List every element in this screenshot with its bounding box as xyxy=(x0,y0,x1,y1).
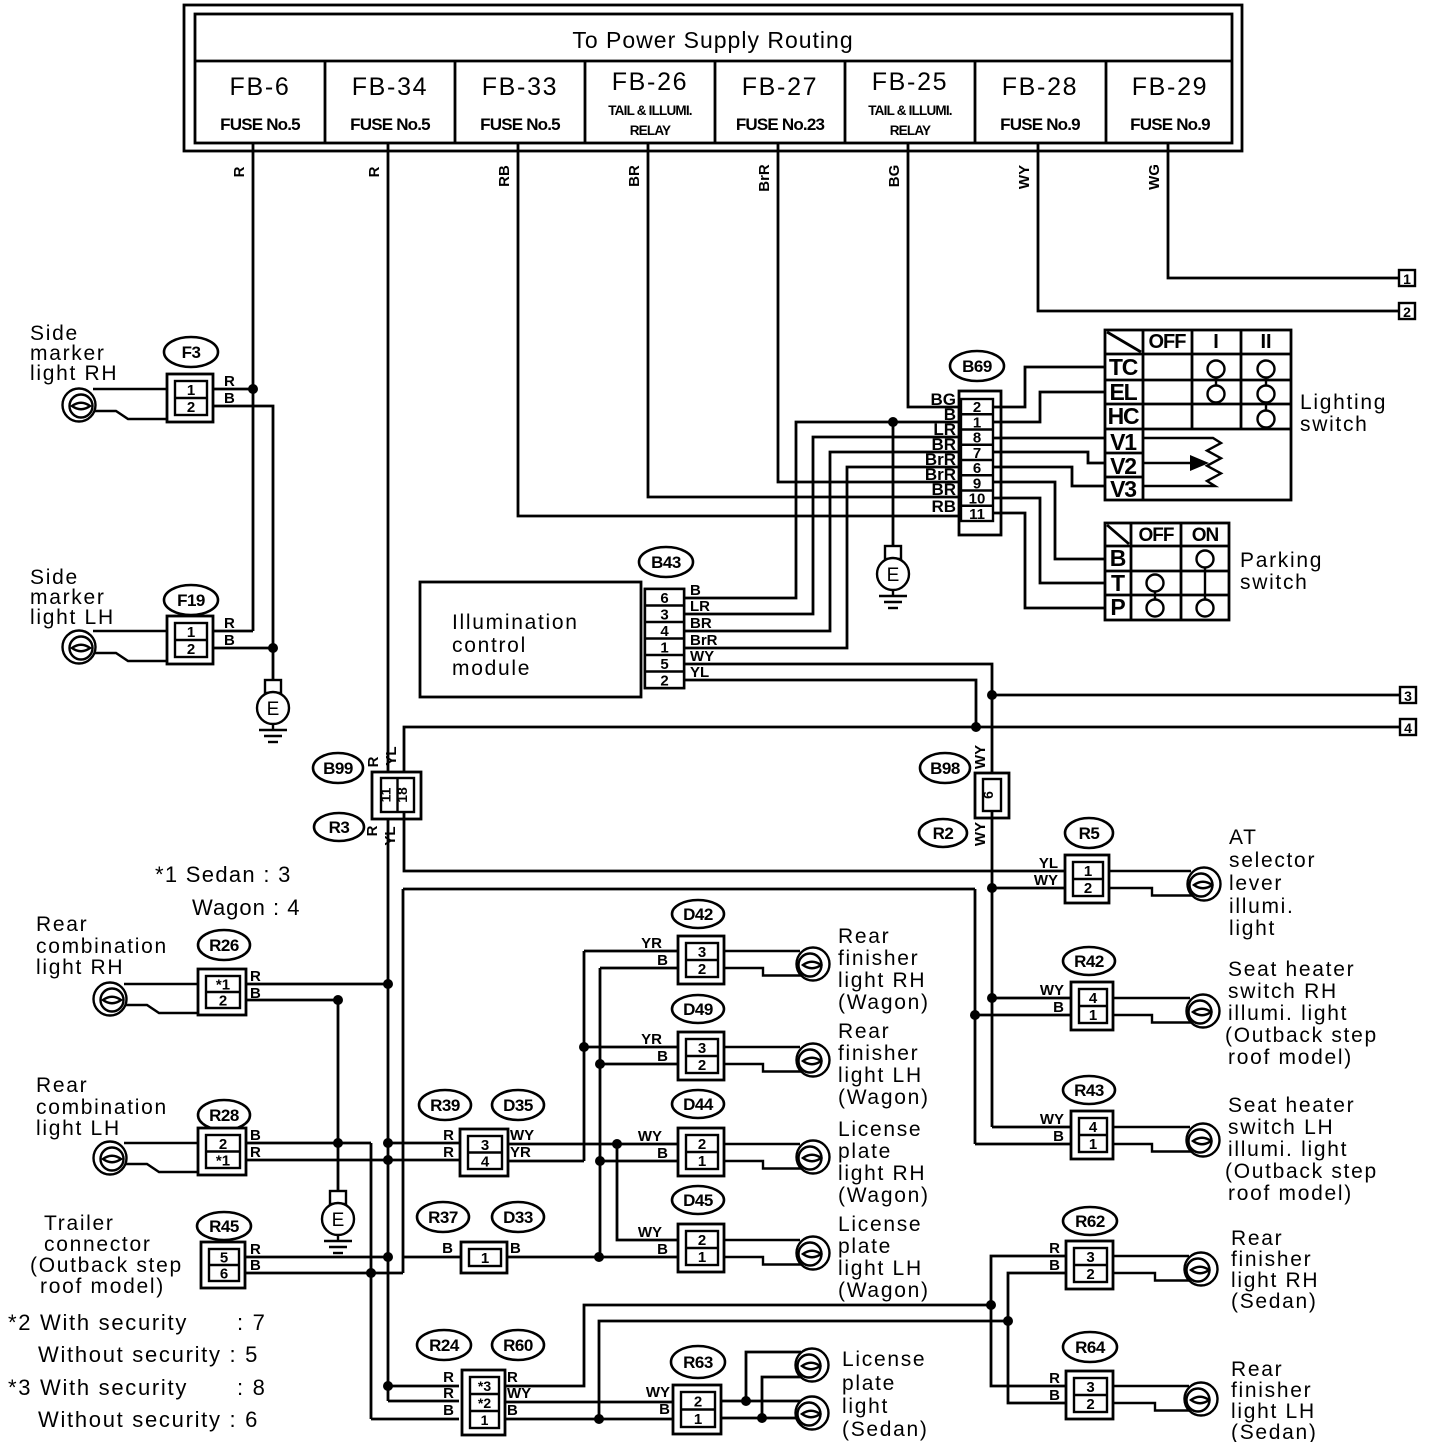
svg-text:R: R xyxy=(224,373,235,390)
wire B69 pin10 to parking T xyxy=(993,498,1105,583)
junction dot xyxy=(579,1042,589,1052)
wire B69 pin8 to lighting V1 xyxy=(993,437,1105,440)
R3 wire labels below xyxy=(364,825,399,845)
connector B98/R2 xyxy=(975,773,1009,818)
svg-text:FUSE No.9: FUSE No.9 xyxy=(1130,115,1210,134)
illumination control module box xyxy=(420,582,641,697)
svg-text:WY: WY xyxy=(972,822,989,846)
svg-text:B: B xyxy=(1049,1257,1060,1274)
svg-text:light RH: light RH xyxy=(838,969,926,992)
wire R64 bulb leads xyxy=(1112,1386,1190,1411)
connector R63 oval xyxy=(671,1346,725,1378)
svg-text:Illumination: Illumination xyxy=(452,611,579,634)
terminal 3 xyxy=(1400,687,1416,704)
wire R63 pin2 to bulbs xyxy=(720,1352,801,1401)
svg-text:T: T xyxy=(1111,570,1125,596)
connector B99 oval xyxy=(313,753,363,783)
connector B99/R3 xyxy=(372,772,421,819)
wire R vertical to R39 pin3 xyxy=(388,1142,460,1145)
R37 wire label left xyxy=(442,1240,453,1257)
svg-text:B: B xyxy=(507,1402,518,1419)
connector R39 oval xyxy=(419,1090,471,1120)
R43 wire labels xyxy=(1040,1111,1064,1145)
junction dot xyxy=(383,1138,393,1148)
svg-text:(Sedan): (Sedan) xyxy=(1231,1421,1318,1442)
wire BG from FB-25 to B69 pin 2 xyxy=(908,143,961,407)
svg-text:finisher: finisher xyxy=(838,1042,919,1065)
note sedan wagon xyxy=(155,862,300,920)
wire D42 bulb leads xyxy=(724,951,801,976)
B99 wire labels above xyxy=(365,746,400,767)
fuse box FB-34 FUSE No.5 xyxy=(350,61,455,143)
wire D49 B lead xyxy=(600,1063,679,1066)
wire ground branch from B net xyxy=(892,422,895,546)
svg-text:FUSE No.5: FUSE No.5 xyxy=(220,115,300,134)
svg-text:P: P xyxy=(1110,594,1125,620)
svg-text:2: 2 xyxy=(1403,304,1411,320)
wire WY to R5 pin2 xyxy=(992,887,1067,890)
wire D42 YR lead xyxy=(584,951,679,1161)
connector R3 oval xyxy=(314,813,364,841)
svg-text:FB-6: FB-6 xyxy=(230,73,291,101)
svg-text:4: 4 xyxy=(660,623,669,640)
wire B43 pin6 B to B69 pin1 xyxy=(684,422,961,598)
connector R26 xyxy=(198,969,246,1015)
wire label R xyxy=(366,166,383,177)
svg-text:2: 2 xyxy=(698,1057,706,1074)
bulb rear finisher RH wagon xyxy=(797,948,830,981)
wire F19 pin1 R xyxy=(209,630,253,633)
bulb side marker RH xyxy=(63,389,96,422)
svg-text:R43: R43 xyxy=(1074,1081,1104,1100)
svg-text:BrR: BrR xyxy=(690,632,718,649)
svg-text:Rear: Rear xyxy=(1231,1227,1283,1250)
wire YL from R3 to R5 pin1 xyxy=(404,812,1067,871)
terminal 4 xyxy=(1400,719,1416,736)
svg-text:Trailer: Trailer xyxy=(44,1212,115,1235)
svg-text:FUSE No.5: FUSE No.5 xyxy=(480,115,560,134)
svg-text:Seat heater: Seat heater xyxy=(1228,958,1355,981)
svg-text:: 8: : 8 xyxy=(237,1375,267,1400)
svg-text:plate: plate xyxy=(842,1372,896,1395)
svg-text:Rear: Rear xyxy=(838,925,890,948)
svg-text:R: R xyxy=(366,166,383,177)
connector B98 oval xyxy=(920,753,970,783)
label Seat heater switch LH illumi. light xyxy=(1225,1094,1378,1205)
svg-text:3: 3 xyxy=(1086,1249,1094,1266)
svg-text:6: 6 xyxy=(980,791,996,799)
svg-text:finisher: finisher xyxy=(1231,1248,1312,1271)
wire F19 bulb leads xyxy=(93,631,167,661)
wire R45 B lead xyxy=(246,1257,403,1273)
svg-text:E: E xyxy=(267,699,280,720)
bulb rear finisher LH sedan xyxy=(1185,1383,1218,1416)
svg-text:TAIL & ILLUMI.: TAIL & ILLUMI. xyxy=(608,103,692,118)
connector F3 xyxy=(167,374,213,422)
bulb license plate LH wagon xyxy=(797,1237,830,1270)
svg-text:HC: HC xyxy=(1108,403,1139,429)
svg-text:(Outback step: (Outback step xyxy=(30,1254,183,1277)
junction dot xyxy=(612,1139,622,1149)
svg-text:R26: R26 xyxy=(209,936,239,955)
svg-text:YL: YL xyxy=(382,826,399,845)
svg-text:light: light xyxy=(1229,917,1276,940)
wire B down to ground xyxy=(337,1000,340,1191)
junction dot xyxy=(594,1414,604,1424)
svg-text:B69: B69 xyxy=(962,357,992,376)
svg-text:2: 2 xyxy=(1084,880,1092,897)
connector R24 oval xyxy=(417,1330,471,1360)
svg-text:18: 18 xyxy=(394,787,410,803)
svg-text:R42: R42 xyxy=(1074,952,1104,971)
svg-text:V1: V1 xyxy=(1110,429,1137,455)
svg-text:roof model): roof model) xyxy=(1228,1046,1353,1069)
svg-text:light LH: light LH xyxy=(838,1257,923,1280)
svg-text:1: 1 xyxy=(1089,1136,1097,1153)
svg-text:R60: R60 xyxy=(503,1336,533,1355)
wire R26 bulb leads xyxy=(124,984,198,1013)
title To Power Supply Routing xyxy=(572,27,853,53)
svg-text:B: B xyxy=(224,632,235,649)
ground E below F19 xyxy=(257,680,289,742)
junction dot xyxy=(595,1059,605,1069)
svg-text:1: 1 xyxy=(1084,863,1092,880)
svg-text:1: 1 xyxy=(481,1412,489,1428)
connector R43 oval xyxy=(1063,1076,1115,1104)
note without security 6 xyxy=(38,1407,259,1432)
svg-text:2: 2 xyxy=(698,1232,706,1249)
connector F19 xyxy=(167,616,213,664)
label AT selector lever illumi. light xyxy=(1229,826,1316,940)
wire R60 pin1 B right xyxy=(505,1418,681,1421)
svg-text:(Wagon): (Wagon) xyxy=(838,991,930,1014)
svg-text:YR: YR xyxy=(510,1144,531,1161)
svg-text:4: 4 xyxy=(1089,1119,1098,1136)
R60 wire labels right xyxy=(507,1369,531,1419)
connector R28 xyxy=(198,1128,246,1175)
svg-text:B: B xyxy=(657,1048,668,1065)
connector R39/D35 xyxy=(460,1129,508,1176)
wire R62 bulb leads xyxy=(1112,1256,1190,1281)
wire B69 pin11 to parking P xyxy=(993,513,1105,608)
svg-text:*1 Sedan : 3: *1 Sedan : 3 xyxy=(155,862,292,887)
wire D44 WY lead xyxy=(506,1143,679,1146)
svg-text:finisher: finisher xyxy=(838,947,919,970)
terminal 1 xyxy=(1399,270,1415,287)
svg-text:light RH: light RH xyxy=(36,956,124,979)
B98 wire label above xyxy=(972,745,989,769)
svg-text:combination: combination xyxy=(36,1096,168,1119)
ground E mid xyxy=(322,1191,354,1253)
svg-text:WY: WY xyxy=(972,745,989,769)
svg-text:R: R xyxy=(1049,1240,1060,1257)
D42 wire labels xyxy=(641,935,668,969)
label Rear finisher light RH Sedan xyxy=(1231,1227,1319,1313)
svg-text:plate: plate xyxy=(838,1235,892,1258)
lighting switch resistor and wires xyxy=(1143,438,1221,486)
svg-text:3: 3 xyxy=(1404,688,1412,704)
svg-text:B: B xyxy=(657,1241,668,1258)
wire D49 YR lead xyxy=(584,1046,679,1049)
note without security 5 xyxy=(38,1342,259,1367)
svg-text:(Wagon): (Wagon) xyxy=(838,1279,930,1302)
svg-text:R: R xyxy=(443,1385,454,1402)
svg-text:switch RH: switch RH xyxy=(1228,980,1338,1003)
svg-text:B: B xyxy=(1049,1387,1060,1404)
svg-text:3: 3 xyxy=(660,606,668,623)
svg-text:R: R xyxy=(250,1144,261,1161)
junction dot xyxy=(986,1300,996,1310)
wire R43 bulb leads xyxy=(1114,1127,1191,1152)
R45 wire labels xyxy=(250,1241,261,1274)
wire B riser to sedan lights xyxy=(599,1321,1008,1419)
svg-text:WY: WY xyxy=(507,1385,531,1402)
svg-text:B: B xyxy=(250,1257,261,1274)
lighting switch table xyxy=(1105,330,1291,502)
bulb rear finisher LH wagon xyxy=(797,1044,830,1077)
svg-text:WY: WY xyxy=(1040,1111,1064,1128)
svg-text:R3: R3 xyxy=(329,818,350,837)
wire B down to R24 xyxy=(371,1273,459,1419)
wire R60 pin2 WY to R63 xyxy=(505,1401,681,1404)
svg-text:selector: selector xyxy=(1229,849,1316,872)
svg-text:EL: EL xyxy=(1110,379,1138,405)
svg-text:2: 2 xyxy=(694,1393,702,1410)
svg-text:2: 2 xyxy=(219,993,227,1010)
svg-text:2: 2 xyxy=(187,399,195,416)
svg-text:License: License xyxy=(842,1348,926,1371)
svg-text:Parking: Parking xyxy=(1240,549,1323,572)
R63 wire labels xyxy=(646,1384,670,1418)
svg-text:Without security : 5: Without security : 5 xyxy=(38,1342,259,1367)
junction dot xyxy=(366,1268,376,1278)
svg-text:3: 3 xyxy=(1086,1379,1094,1396)
svg-text:R: R xyxy=(250,1241,261,1258)
svg-text:WY: WY xyxy=(510,1127,534,1144)
wire B43 pin3 LR to B69 pin8 xyxy=(684,437,961,614)
svg-text:WY: WY xyxy=(1016,165,1033,189)
svg-text:B98: B98 xyxy=(930,759,960,778)
svg-text:1: 1 xyxy=(660,639,668,656)
svg-text:light RH: light RH xyxy=(30,362,118,385)
svg-text:module: module xyxy=(452,657,531,680)
connector D49 xyxy=(678,1032,724,1080)
svg-text:YL: YL xyxy=(383,746,400,765)
wire YL net to terminal 4 xyxy=(404,727,1399,778)
svg-text:TC: TC xyxy=(1109,354,1138,380)
wire R45 R lead xyxy=(246,1256,388,1259)
wire R43 B lead xyxy=(975,1143,1079,1146)
junction dot xyxy=(383,1381,393,1391)
svg-text:RB: RB xyxy=(496,165,513,187)
connector D45 oval xyxy=(672,1186,724,1214)
svg-text:E: E xyxy=(332,1210,345,1231)
wire B69 pin2 to lighting TC xyxy=(993,367,1105,407)
wire R from FB-6 down to F3/F19 xyxy=(252,143,255,631)
connector R37 oval xyxy=(417,1202,469,1232)
svg-text:D44: D44 xyxy=(683,1095,714,1114)
fuse box FB-28 FUSE No.9 xyxy=(1000,61,1106,143)
svg-text:YL: YL xyxy=(690,664,709,681)
svg-text:E: E xyxy=(887,565,900,586)
wire label RB xyxy=(496,165,513,187)
fuse box FB-29 FUSE No.9 xyxy=(1130,73,1210,134)
svg-text:D49: D49 xyxy=(683,1000,713,1019)
svg-text:2: 2 xyxy=(1086,1266,1094,1283)
svg-text:(Sedan): (Sedan) xyxy=(1231,1290,1318,1313)
svg-text:illumi.: illumi. xyxy=(1229,895,1295,918)
wire label R xyxy=(231,166,248,177)
connector F3 oval xyxy=(164,337,218,367)
svg-text:1: 1 xyxy=(1089,1007,1097,1024)
wire B69 pin9 to parking B xyxy=(993,482,1105,559)
svg-text:B99: B99 xyxy=(323,759,353,778)
wire D42 B lead xyxy=(600,968,679,1257)
connector B69 oval xyxy=(950,351,1004,381)
label Side marker light RH xyxy=(30,322,118,385)
svg-text:1: 1 xyxy=(187,382,195,399)
svg-text:FUSE No.5: FUSE No.5 xyxy=(350,115,430,134)
wire F3 bulb leads xyxy=(93,389,167,419)
B43 pin wire labels xyxy=(690,582,718,681)
svg-text:TAIL & ILLUMI.: TAIL & ILLUMI. xyxy=(868,103,952,118)
connector R62 xyxy=(1066,1241,1113,1289)
fuse box FB-27 FUSE No.23 xyxy=(736,61,845,143)
wire label BrR xyxy=(756,164,773,192)
junction dot xyxy=(987,883,997,893)
svg-text:B: B xyxy=(1053,1128,1064,1145)
svg-text:BG: BG xyxy=(886,165,903,188)
svg-text:R62: R62 xyxy=(1075,1212,1105,1231)
junction dot xyxy=(248,384,258,394)
svg-text:B: B xyxy=(690,582,701,599)
wire R26 R lead xyxy=(246,983,388,986)
svg-text:3: 3 xyxy=(698,1040,706,1057)
connector R64 xyxy=(1066,1371,1113,1419)
wire label WG xyxy=(1146,164,1163,190)
connector D45 xyxy=(678,1224,724,1272)
svg-text:Rear: Rear xyxy=(36,913,88,936)
svg-text:plate: plate xyxy=(838,1140,892,1163)
connector R24/R60 xyxy=(462,1370,505,1435)
wire D45 bulb leads xyxy=(724,1240,801,1265)
junction dot xyxy=(383,979,393,989)
svg-text:11: 11 xyxy=(377,787,393,802)
svg-text:1: 1 xyxy=(1403,271,1411,287)
svg-text:R: R xyxy=(1049,1370,1060,1387)
svg-text:R45: R45 xyxy=(209,1217,239,1236)
svg-text:R37: R37 xyxy=(428,1208,458,1227)
svg-text:FB-33: FB-33 xyxy=(482,73,559,101)
svg-text:License: License xyxy=(838,1118,922,1141)
svg-text:R: R xyxy=(443,1127,454,1144)
svg-text:FB-29: FB-29 xyxy=(1132,73,1209,101)
wire R42 B lead xyxy=(975,1014,1079,1017)
note *3 with security xyxy=(8,1375,267,1400)
wire R64 B lead xyxy=(1008,1321,1066,1403)
svg-text:FB-27: FB-27 xyxy=(742,73,819,101)
lighting switch contacts xyxy=(1208,361,1275,428)
connector D33 oval xyxy=(492,1202,544,1232)
wire R28 B lead xyxy=(246,1143,371,1273)
svg-text:V3: V3 xyxy=(1110,476,1136,502)
svg-text:WY: WY xyxy=(638,1128,662,1145)
svg-text:1: 1 xyxy=(694,1411,702,1428)
svg-text:R: R xyxy=(250,968,261,985)
svg-text:ON: ON xyxy=(1192,525,1219,546)
wire D45 B lead xyxy=(403,1256,679,1259)
label Trailer connector xyxy=(30,1212,183,1298)
svg-text:*2: *2 xyxy=(478,1395,491,1411)
wire R60 pin3 R right xyxy=(505,1305,991,1386)
wire B43 pin1 BrR to B69 pin6 xyxy=(684,467,961,648)
bulb rear finisher RH sedan xyxy=(1185,1253,1218,1286)
connector R37/D33 xyxy=(461,1242,507,1273)
wire WG from FB-29 to terminal 1 xyxy=(1168,143,1399,278)
terminal 2 xyxy=(1399,303,1415,320)
label Lighting switch xyxy=(1300,391,1387,436)
wire B43 pin2 YL right xyxy=(684,680,976,727)
junction dot xyxy=(383,1252,393,1262)
svg-text:WY: WY xyxy=(1034,872,1058,889)
wire R5 bulb leads xyxy=(1110,871,1192,896)
svg-text:FB-26: FB-26 xyxy=(612,68,689,96)
R64 wire labels xyxy=(1049,1370,1060,1404)
svg-text:*1: *1 xyxy=(216,1152,230,1169)
connector B43 oval xyxy=(639,547,693,577)
svg-text:1: 1 xyxy=(481,1250,489,1267)
svg-text:light LH: light LH xyxy=(838,1064,923,1087)
svg-text:*3 With security: *3 With security xyxy=(8,1375,188,1400)
wire RB from FB-33 to B69 pin 11 xyxy=(518,143,961,516)
wire R from FB-34 down through B99 pin 11 to R24 xyxy=(388,143,459,1401)
svg-text:2: 2 xyxy=(660,672,668,689)
svg-text:(Sedan): (Sedan) xyxy=(842,1418,929,1441)
svg-text:R64: R64 xyxy=(1075,1338,1106,1357)
junction dot xyxy=(888,417,898,427)
svg-text:(Wagon): (Wagon) xyxy=(838,1086,930,1109)
svg-text:light: light xyxy=(842,1395,889,1418)
svg-text:Lighting: Lighting xyxy=(1300,391,1387,414)
junction dot xyxy=(595,1156,605,1166)
svg-text:: 7: : 7 xyxy=(237,1310,267,1335)
D35 wire labels right xyxy=(510,1127,534,1161)
wire D44 B lead xyxy=(600,1160,679,1163)
junction dot xyxy=(333,1138,343,1148)
connector D42 xyxy=(678,936,724,984)
svg-text:FB-25: FB-25 xyxy=(872,68,949,96)
connector R45 xyxy=(201,1242,245,1288)
svg-text:R: R xyxy=(224,615,235,632)
svg-text:5: 5 xyxy=(220,1250,228,1267)
B69 pin wire labels xyxy=(925,390,956,516)
svg-text:BR: BR xyxy=(690,615,712,632)
svg-text:FUSE No.23: FUSE No.23 xyxy=(736,115,825,134)
bulb rear combination RH xyxy=(94,983,127,1016)
wire label BG xyxy=(886,165,903,188)
junction dot xyxy=(741,1396,751,1406)
bulb side marker LH xyxy=(63,631,96,664)
parking switch contacts xyxy=(1147,551,1214,617)
junction dot xyxy=(757,1413,767,1423)
svg-text:WY: WY xyxy=(638,1224,662,1241)
svg-text:RB: RB xyxy=(931,497,956,516)
label Side marker light LH xyxy=(30,566,115,629)
svg-text:Without security : 6: Without security : 6 xyxy=(38,1407,259,1432)
svg-text:WY: WY xyxy=(1040,982,1064,999)
connector R2 oval xyxy=(919,819,967,847)
bulb license plate sedan upper xyxy=(796,1349,829,1382)
